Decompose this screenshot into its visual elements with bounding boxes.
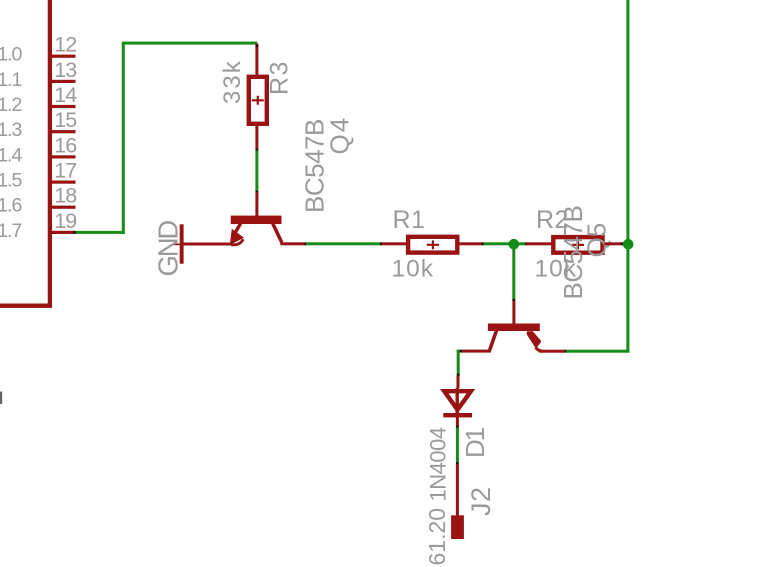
svg-text:R3: R3 xyxy=(266,60,294,95)
resistor R3 xyxy=(249,77,267,124)
Q5 base pin stub xyxy=(512,301,515,324)
svg-text:33k: 33k xyxy=(219,59,246,104)
ground symbol GND xyxy=(173,224,184,263)
svg-text:19: 19 xyxy=(54,209,76,233)
svg-text:GND: GND xyxy=(153,221,184,277)
Q4 base pin stub xyxy=(255,192,258,217)
svg-text:P1.6: P1.6 xyxy=(0,195,21,217)
R2 left pin stub xyxy=(526,242,552,245)
svg-text:15: 15 xyxy=(54,108,77,132)
svg-text:16: 16 xyxy=(54,133,77,157)
J2 pin stub xyxy=(456,464,459,516)
wire top horizontal xyxy=(122,42,257,45)
R1 left pin stub xyxy=(382,242,407,245)
pin 15 (P1.3) of U1 xyxy=(0,108,77,141)
wire horizontal to Q5 emitter xyxy=(564,350,630,353)
IC value text fragment xyxy=(0,392,2,405)
svg-text:P1.7: P1.7 xyxy=(0,220,21,242)
svg-text:14: 14 xyxy=(54,83,77,107)
pin 13 (P1.1) of U1 xyxy=(0,58,77,91)
svg-text:1N4004: 1N4004 xyxy=(426,427,451,501)
wire D1 to J2 xyxy=(456,428,459,465)
svg-text:10k: 10k xyxy=(392,255,435,282)
svg-text:P1.0: P1.0 xyxy=(0,44,22,66)
svg-text:P1.4: P1.4 xyxy=(0,144,22,166)
pin 16 (P1.4) of U1 xyxy=(0,133,77,166)
R3 bottom pin stub xyxy=(255,126,258,151)
wire R1 to junction xyxy=(484,242,511,245)
wire vertical riser xyxy=(122,43,125,234)
Q5 emitter pin stub xyxy=(539,350,565,353)
D1 cathode pin stub xyxy=(456,417,459,429)
svg-text:12: 12 xyxy=(54,33,76,57)
IC U1 body outline xyxy=(0,0,50,306)
svg-text:R1: R1 xyxy=(393,206,426,234)
svg-text:J2: J2 xyxy=(466,486,496,516)
wire Q5 collector down xyxy=(457,350,463,377)
R1 right pin stub xyxy=(459,242,484,245)
svg-text:13: 13 xyxy=(54,58,77,82)
svg-text:61.20: 61.20 xyxy=(424,508,450,566)
svg-text:P1.1: P1.1 xyxy=(0,69,21,91)
wire Q4 collector to R1 xyxy=(306,242,383,245)
pin 19 (P1.7) of U1 xyxy=(0,209,76,242)
wire junction to R2 xyxy=(519,242,528,245)
svg-text:P1.5: P1.5 xyxy=(0,170,22,192)
pin 14 (P1.2) of U1 xyxy=(0,83,77,116)
svg-text:P1.3: P1.3 xyxy=(0,119,21,141)
wire pin19 horizontal xyxy=(73,231,125,234)
pin 17 (P1.5) of U1 xyxy=(0,159,76,192)
svg-text:Q5: Q5 xyxy=(582,223,612,258)
pin 12 (P1.0) of U1 xyxy=(0,33,76,66)
wire R3 to Q4 base xyxy=(255,151,258,194)
junction node xyxy=(509,239,520,250)
connector J2 pad xyxy=(451,515,464,539)
diode D1 (1N4004) xyxy=(443,388,472,417)
D1 anode pin stub xyxy=(457,376,460,388)
wire junction to Q5 base xyxy=(512,244,515,302)
wire vertical to top edge xyxy=(626,0,629,244)
transistor Q5 (BC547B) xyxy=(461,324,543,353)
svg-text:18: 18 xyxy=(54,184,77,208)
R3 top pin stub xyxy=(255,44,258,76)
svg-text:P1.2: P1.2 xyxy=(0,94,21,116)
transistor Q4 (BC547B) xyxy=(184,216,308,246)
svg-text:17: 17 xyxy=(54,159,76,183)
junction node right xyxy=(623,239,634,250)
wire junction down xyxy=(626,244,629,353)
svg-text:Q4: Q4 xyxy=(325,116,355,155)
pin 18 (P1.6) of U1 xyxy=(0,184,77,217)
svg-text:D1: D1 xyxy=(460,427,490,458)
resistor R2 xyxy=(553,237,602,253)
resistor R1 xyxy=(408,237,457,253)
R2 right pin stub xyxy=(604,242,624,245)
